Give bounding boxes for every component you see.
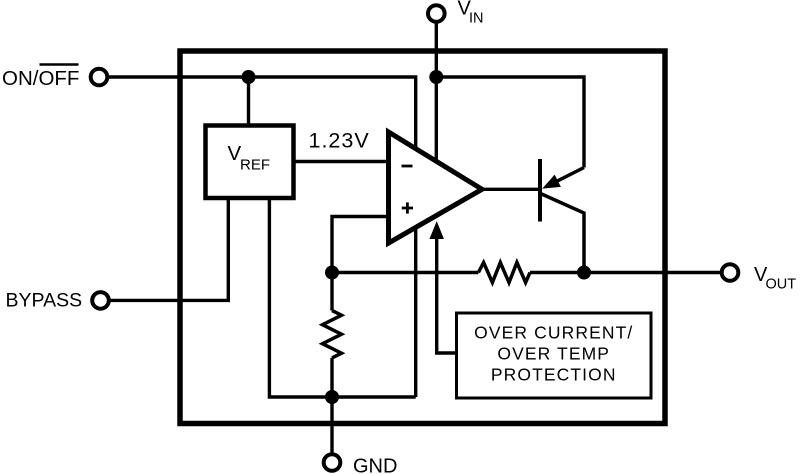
wire VIN vertical: from VIN terminal down into error amp [435, 22, 438, 196]
svg-text:OVER TEMP: OVER TEMP [497, 344, 610, 364]
IC outer boundary box [180, 51, 665, 424]
wire GND stem to GND terminal [330, 397, 333, 454]
wire BYPASS: from BYPASS terminal right then up to VREF bottom pin [111, 196, 229, 300]
wire non-inverting input to feedback node [332, 217, 388, 273]
op-amp inverting input minus sign [402, 165, 413, 168]
svg-text:REF: REF [240, 157, 270, 174]
block U3 over current / over temp protection box [457, 313, 652, 398]
node junction: VIN on rail [429, 70, 443, 84]
svg-text:BYPASS: BYPASS [6, 290, 83, 312]
op-amp non-inverting input plus sign [402, 207, 413, 210]
wire VIN rail to pass transistor emitter [436, 77, 584, 168]
node junction: ground node on bottom wire [325, 390, 339, 404]
wire output node to VOUT terminal [530, 271, 722, 274]
over current / over temp protection block output wire with arrow into op-amp [437, 234, 457, 353]
svg-text:ON/OFF: ON/OFF [2, 67, 79, 90]
terminal ON/OFF pin circle [91, 69, 108, 86]
terminal VOUT pin circle [722, 264, 739, 281]
wire VREF top pin [247, 77, 250, 130]
node junction: ON/OFF wire to VREF top pin [242, 70, 256, 84]
transistor Q1 collector [541, 194, 585, 273]
terminal VIN pin circle [428, 5, 445, 22]
block U2 VREF bandgap reference box [206, 126, 294, 199]
node junction: feedback node at R2 top [325, 266, 339, 280]
op-amp U1 error amplifier triangle [389, 132, 483, 243]
wire VREF ground pin down and along bottom to ON/OFF vertical [269, 196, 415, 397]
svg-text:OUT: OUT [766, 277, 797, 293]
terminal BYPASS pin circle [92, 292, 109, 309]
wire op-amp output to transistor base [482, 188, 540, 191]
node junction: collector / resistor / VOUT [577, 266, 591, 280]
svg-text:GND: GND [353, 456, 397, 474]
svg-text:IN: IN [469, 11, 484, 27]
svg-text:1.23V: 1.23V [309, 129, 370, 153]
wire ON/OFF net: from ON/OFF terminal right then down through error amp to VREF enable [109, 77, 416, 397]
resistor R2 vertical zigzag to ground [330, 273, 333, 311]
transistor Q1 emitter with arrow into base [553, 168, 584, 184]
svg-text:OVER CURRENT/: OVER CURRENT/ [474, 323, 633, 343]
transistor Q1 PNP pass device base bar [538, 159, 542, 222]
terminal GND pin circle [324, 454, 341, 471]
wire VREF output 1.23V to inverting input [292, 160, 388, 163]
resistor R1 horizontal zigzag [478, 263, 530, 283]
svg-text:PROTECTION: PROTECTION [491, 365, 617, 385]
wire feedback node to resistor R1 [332, 271, 478, 274]
